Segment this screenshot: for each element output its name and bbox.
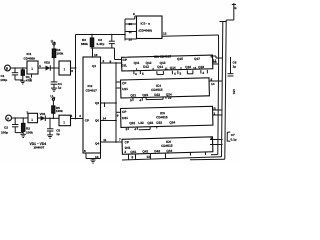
svg-text:Q4: Q4	[95, 142, 99, 146]
svg-text:181: 181	[232, 89, 236, 94]
svg-text:100p: 100p	[0, 78, 7, 82]
row1 Q labels lower	[143, 63, 204, 70]
svg-text:9: 9	[117, 113, 119, 117]
label C5 1u	[56, 129, 60, 136]
label C2 100p	[1, 126, 8, 135]
svg-text:Q42: Q42	[142, 149, 148, 153]
label R3 680k	[81, 38, 88, 46]
svg-text:7: 7	[119, 138, 121, 142]
supply rail C (outer)	[190, 3, 237, 160]
row4 bottom pin stubs	[124, 148, 205, 160]
row3 bottom pin stubs	[125, 127, 156, 132]
svg-text:Q18: Q18	[198, 65, 204, 69]
ground under R2	[20, 134, 26, 137]
IC2 bottom pins and ground	[84, 149, 101, 163]
resistor R2	[22, 118, 25, 134]
wire pin 11	[125, 30, 137, 34]
svg-text:CD4015: CD4015	[156, 115, 168, 119]
svg-text:1: 1	[214, 112, 216, 116]
label C3 0.47u	[97, 38, 105, 46]
wire A to IC1-c input	[12, 117, 29, 119]
svg-text:11: 11	[103, 138, 107, 142]
label C1 100p	[0, 74, 7, 82]
capacitor C2	[12, 118, 23, 133]
svg-text:IC2: IC2	[88, 84, 93, 88]
svg-text:Q2: Q2	[95, 101, 99, 105]
svg-text:2: 2	[103, 59, 105, 63]
label R4 100k	[56, 48, 63, 55]
IC2 CD4017 counter box	[83, 57, 101, 153]
svg-text:11: 11	[129, 30, 133, 34]
svg-text:10: 10	[129, 22, 133, 26]
svg-text:D1L: D1L	[121, 63, 127, 67]
svg-text:Q41: Q41	[130, 150, 136, 154]
label C4 1u	[58, 82, 62, 89]
row4 Q labels	[130, 149, 172, 154]
row2 Q labels	[130, 92, 172, 97]
svg-text:L32: L32	[138, 121, 144, 125]
label Ub (bottom)	[50, 95, 55, 100]
svg-text:b: b	[54, 40, 56, 44]
svg-text:1: 1	[63, 120, 65, 124]
svg-text:C2: C2	[4, 126, 8, 130]
capacitor C3	[109, 35, 115, 49]
svg-text:CP: CP	[85, 118, 89, 122]
svg-text:1N4007: 1N4007	[34, 146, 45, 150]
inverter IC1-d	[59, 115, 71, 126]
svg-text:Q31: Q31	[129, 121, 135, 125]
row1 bottom pin stubs	[134, 69, 208, 77]
svg-text:1: 1	[63, 67, 65, 71]
svg-text:IC3 CD4015: IC3 CD4015	[154, 54, 171, 58]
capacitor C1	[12, 68, 23, 80]
wire pin 13	[125, 37, 137, 41]
wire IC2 Q2	[101, 102, 117, 107]
svg-text:100p: 100p	[1, 130, 8, 134]
svg-text:Q44: Q44	[166, 149, 172, 153]
wire IC2 Q4 to row4 CP	[101, 138, 122, 143]
bus x=116	[116, 63, 121, 142]
label R1 47M	[26, 75, 32, 82]
svg-text:14: 14	[103, 117, 107, 121]
diode VD1	[40, 112, 60, 121]
capacitor C5	[47, 118, 53, 135]
svg-text:Q11: Q11	[134, 61, 140, 65]
svg-text:6: 6	[71, 69, 73, 73]
capacitor C6 on rail	[228, 57, 237, 76]
shift register IC3 CD4015 box (row 1)	[121, 53, 213, 71]
wire oscillator top rail y=34.5	[76, 34, 126, 36]
svg-text:680k: 680k	[81, 42, 88, 46]
svg-text:8: 8	[84, 149, 86, 153]
row1 right pins to rail	[211, 55, 223, 63]
svg-text:0.1µ: 0.1µ	[231, 137, 237, 141]
svg-text:CD4015: CD4015	[161, 144, 173, 148]
capacitor C7 bracket	[227, 132, 237, 141]
microphone B input terminal	[5, 65, 11, 71]
svg-text:12: 12	[213, 58, 217, 62]
inverter IC1-a	[27, 61, 38, 82]
svg-text:D31: D31	[122, 116, 128, 120]
svg-text:VD2: VD2	[44, 61, 50, 65]
svg-text:CP: CP	[122, 81, 126, 85]
svg-text:D32: D32	[156, 121, 162, 125]
wire IC1-c output	[38, 117, 41, 119]
svg-text:3: 3	[79, 114, 81, 118]
row1 inner pin numbers	[136, 65, 197, 71]
svg-text:CD4015: CD4015	[151, 88, 163, 92]
label R2 100k	[26, 127, 33, 135]
wire IC2 Q0	[101, 117, 117, 122]
svg-text:Q22: Q22	[142, 93, 148, 97]
svg-text:Q14: Q14	[157, 65, 163, 69]
svg-text:1µ: 1µ	[56, 132, 60, 136]
ground under C5	[47, 135, 53, 138]
svg-text:Q21: Q21	[130, 93, 136, 97]
row1 Q labels upper	[134, 56, 201, 65]
svg-text:D12: D12	[143, 65, 149, 69]
svg-text:CP: CP	[125, 140, 129, 144]
supply rail B (middle)	[122, 22, 226, 161]
gate IC3-a box	[137, 16, 163, 39]
svg-text:4: 4	[71, 114, 73, 118]
svg-text:13: 13	[146, 155, 150, 159]
IC2 top pin	[93, 48, 98, 57]
resistor R4	[52, 43, 55, 68]
svg-text:14: 14	[211, 82, 215, 86]
svg-text:Q15: Q15	[177, 57, 183, 61]
svg-text:Q16: Q16	[185, 65, 191, 69]
supply rail A (inner)	[211, 64, 219, 155]
svg-text:Q17: Q17	[194, 57, 200, 61]
row2 right pin to rail	[209, 77, 223, 86]
capacitor C4	[51, 68, 58, 88]
svg-text:9: 9	[211, 136, 213, 140]
node bus IC3-a inputs	[124, 19, 126, 41]
svg-text:13: 13	[129, 37, 133, 41]
label VD1~VD4 1N4007	[30, 142, 47, 150]
svg-text:CP: CP	[122, 110, 126, 114]
svg-text:Q34: Q34	[169, 120, 175, 124]
svg-text:1: 1	[31, 118, 33, 122]
ground under R1	[20, 81, 25, 84]
wire vertical node bus x=75.5	[75, 35, 77, 119]
resistor R5	[52, 98, 55, 118]
label Ub (top)	[51, 40, 56, 45]
svg-text:8: 8	[211, 77, 213, 81]
wire IC3-a output	[162, 32, 219, 37]
label IC1 CD4069	[24, 52, 36, 60]
wire RC bottom link	[91, 47, 122, 59]
svg-text:100k: 100k	[56, 109, 63, 113]
svg-text:CP: CP	[123, 58, 127, 62]
wire IC1-b output to node	[71, 67, 77, 73]
svg-text:10: 10	[168, 96, 172, 100]
svg-text:1µ: 1µ	[233, 64, 237, 68]
svg-text:D42: D42	[154, 149, 160, 153]
svg-text:b: b	[53, 95, 55, 99]
svg-text:7: 7	[30, 78, 32, 82]
input A terminal	[6, 115, 12, 121]
svg-text:1µ: 1µ	[58, 85, 62, 89]
side text	[232, 89, 236, 94]
svg-text:1: 1	[31, 67, 33, 71]
svg-text:U21: U21	[122, 87, 128, 91]
svg-text:D22: D22	[154, 93, 160, 97]
svg-text:9: 9	[110, 59, 112, 63]
row4 right pins to rail	[210, 136, 223, 145]
svg-text:12: 12	[163, 32, 167, 36]
row2 bottom pin stubs	[130, 96, 172, 103]
svg-text:Q32: Q32	[147, 121, 153, 125]
svg-text:100k: 100k	[26, 131, 33, 135]
resistor R3	[90, 35, 93, 49]
pin 9 stub	[125, 12, 137, 19]
shift register IC4 CD4015 box (row 2)	[121, 78, 210, 98]
svg-text:13: 13	[95, 155, 99, 159]
ground under C4	[51, 88, 57, 91]
svg-text:0.47µ: 0.47µ	[97, 42, 105, 46]
svg-text:Q1: Q1	[92, 64, 96, 68]
svg-text:Q0: Q0	[95, 119, 99, 123]
shift register IC5 CD4015 box (row 3)	[121, 106, 213, 127]
svg-text:IC3 - a: IC3 - a	[141, 22, 151, 26]
wire IC1-a output to diode	[38, 64, 46, 68]
shift register IC6 CD4015 box (row 4)	[122, 137, 213, 155]
diode VD2	[44, 61, 59, 71]
label R5 100k	[56, 106, 63, 113]
svg-text:16: 16	[94, 53, 98, 57]
resistor R1	[21, 68, 24, 81]
svg-text:E: E	[235, 6, 237, 10]
svg-text:4: 4	[39, 64, 41, 68]
IC2 labels	[85, 64, 100, 146]
wire down to shift register R input	[213, 35, 219, 64]
wire pin 10	[125, 22, 137, 26]
inverter IC1-b	[59, 61, 71, 75]
svg-text:Q14: Q14	[170, 66, 176, 70]
svg-text:CD4069: CD4069	[24, 56, 36, 60]
wire IC1-d output to IC2 CP	[71, 114, 85, 119]
svg-text:VD1: VD1	[40, 112, 46, 116]
row3 Q labels	[129, 120, 175, 126]
svg-text:100k: 100k	[56, 52, 63, 56]
svg-text:(CD4069): (CD4069)	[139, 29, 152, 33]
wire IC2 Q1 to row1 D	[101, 59, 122, 64]
wire mic to IC1-a input	[10, 67, 27, 69]
svg-text:9: 9	[133, 12, 135, 16]
svg-text:CD4017: CD4017	[86, 89, 98, 93]
inverter IC1-c	[27, 111, 38, 123]
row3 right pins to rail	[213, 107, 223, 116]
